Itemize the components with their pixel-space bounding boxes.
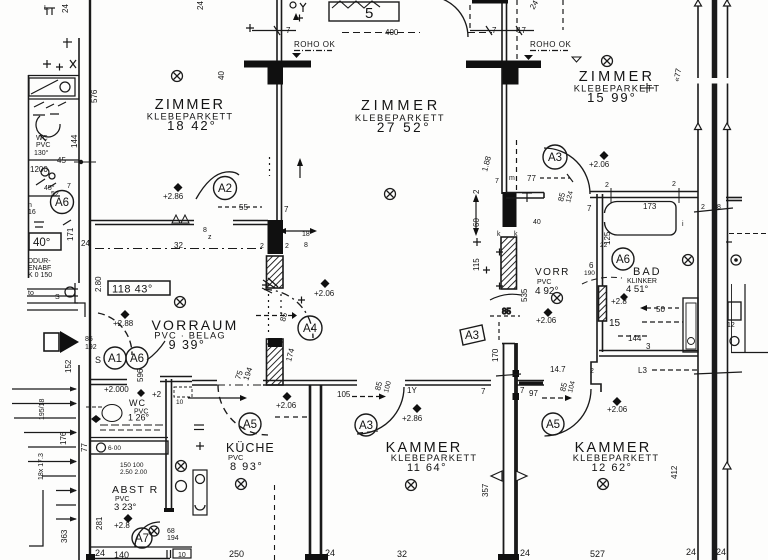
wire ABST bottom wall — [89, 546, 192, 548]
stair rail L — [29, 490, 43, 546]
svg-text:z: z — [208, 234, 212, 241]
wall pier hatched A4 — [267, 339, 284, 385]
wire wall2 lower — [503, 343, 505, 556]
label A4 — [298, 316, 322, 340]
svg-text:7: 7 — [520, 386, 525, 395]
ROOM LABELS — [112, 69, 662, 513]
tick line top wall2 — [470, 30, 534, 32]
wire horizontal wall y222 — [91, 220, 194, 222]
svg-text:1200: 1200 — [30, 165, 48, 174]
svg-text:A5: A5 — [243, 419, 257, 431]
wall pier black cap A4 — [268, 338, 282, 347]
door leaf triangles on wall — [172, 215, 189, 223]
svg-text:A2: A2 — [218, 183, 232, 195]
svg-text:S: S — [95, 355, 101, 365]
dashed vertical right of wall2 black pier — [516, 140, 518, 190]
R2-1 dashed box — [174, 387, 192, 397]
svg-text:24: 24 — [95, 548, 105, 558]
TOP BOX 5 — [329, 1, 399, 21]
node ticks on bad top wall — [610, 188, 612, 203]
svg-text:2: 2 — [605, 182, 609, 189]
door arc A1/A6 dashed — [98, 313, 132, 355]
svg-text:A7: A7 — [135, 533, 149, 545]
neighbor fixtures right of wall — [728, 302, 741, 320]
svg-text:576: 576 — [90, 89, 99, 103]
underline curve 4 92 — [490, 294, 521, 300]
svg-text:n: n — [28, 202, 32, 209]
svg-text:8: 8 — [203, 227, 207, 234]
svg-text:18x 17.3: 18x 17.3 — [38, 453, 45, 480]
symbol circled slash — [175, 297, 186, 308]
wire dashdot line 32 — [95, 248, 264, 250]
dim 85 dashes above — [490, 315, 520, 317]
node wall2 junction blobs — [513, 370, 520, 377]
misc dimension ticks — [44, 0, 742, 481]
svg-text:to: to — [28, 290, 34, 297]
svg-text:77: 77 — [80, 443, 89, 452]
box 5 — [329, 2, 399, 21]
shower WC fixture — [683, 298, 698, 352]
bowtie wall2 — [491, 471, 502, 481]
svg-text:3: 3 — [646, 342, 651, 351]
shelf line — [28, 159, 79, 161]
svg-text:8 93°: 8 93° — [230, 461, 263, 473]
DIMENSION TEXTS — [30, 26, 665, 559]
svg-text:2: 2 — [701, 204, 705, 211]
LEFT FIXTURE COLUMN — [28, 60, 79, 227]
door arc A7 abst — [135, 522, 160, 547]
wire neighbor line right — [744, 284, 746, 352]
wire dash arrow kammer1 — [352, 396, 380, 398]
svg-text:357: 357 — [481, 483, 490, 497]
svg-text:85: 85 — [85, 336, 93, 343]
svg-text:363: 363 — [60, 529, 69, 543]
gap covers on right wall lines — [693, 78, 734, 84]
svg-text:A4: A4 — [303, 323, 318, 335]
svg-text:400: 400 — [385, 28, 399, 37]
svg-text:A6: A6 — [130, 353, 144, 365]
svg-text:14.7: 14.7 — [550, 365, 566, 374]
wire kitchen dashed line — [274, 485, 276, 560]
svg-text:A3: A3 — [548, 152, 562, 164]
wire counter edge marks — [194, 424, 204, 426]
svg-text:4 51°: 4 51° — [626, 284, 648, 295]
wire dash arrow vorraum door — [256, 315, 292, 317]
scribbles below hatch — [262, 278, 278, 293]
svg-text:1 26°: 1 26° — [128, 413, 150, 423]
dim 55 dashes — [218, 206, 262, 208]
box 10 bottom — [173, 549, 191, 558]
svg-text:2: 2 — [472, 189, 481, 194]
bottom dimension row — [95, 547, 726, 560]
label A7 — [132, 528, 152, 548]
label A3 boxed — [460, 325, 485, 345]
wire dash arrow kitchen door — [188, 397, 240, 399]
wire dashdot door kitchen — [217, 384, 263, 386]
scribble marks — [34, 102, 66, 108]
svg-text:24: 24 — [196, 1, 205, 10]
svg-text:WC: WC — [129, 398, 146, 408]
svg-text:2: 2 — [590, 368, 594, 375]
svg-text:2.50 2.00: 2.50 2.00 — [120, 469, 147, 476]
wire long wall y380 seg3 — [192, 380, 217, 382]
svg-text:176: 176 — [59, 431, 68, 445]
label A1 — [104, 347, 126, 369]
counter box — [90, 437, 168, 439]
wire BAD top wall — [590, 191, 698, 193]
svg-text:11 64°: 11 64° — [407, 462, 447, 474]
svg-text:15: 15 — [609, 318, 621, 329]
svg-text:A3: A3 — [465, 330, 479, 342]
svg-text:6: 6 — [589, 261, 594, 270]
svg-text:250: 250 — [229, 549, 244, 559]
svg-text:12 62°: 12 62° — [592, 462, 633, 474]
vertical dim 60 arrows — [475, 198, 477, 232]
svg-text:24: 24 — [325, 548, 335, 558]
svg-text:ZIMMER: ZIMMER — [361, 98, 441, 114]
dashed vertical near wall2 top — [516, 0, 518, 60]
door arc entry right — [147, 341, 165, 360]
wire left inner wall line — [78, 38, 80, 283]
zigzag — [332, 1, 380, 8]
hinge T mark left of right wall — [640, 83, 654, 93]
KITCHEN / ABST fixtures — [86, 387, 207, 558]
plus marks near chimney right cluster — [473, 238, 481, 246]
svg-text:144: 144 — [70, 134, 79, 148]
svg-text:45: 45 — [57, 156, 66, 165]
top wall black bar at edge — [472, 0, 508, 4]
wire center wall2 upper — [501, 0, 503, 194]
svg-text:7: 7 — [495, 178, 499, 185]
svg-text:+2.06: +2.06 — [589, 160, 610, 169]
sink box right of wall — [193, 470, 207, 515]
toilet wc — [102, 405, 122, 422]
svg-text:m: m — [509, 175, 515, 182]
svg-text:VORR: VORR — [535, 267, 570, 278]
svg-text:+2.86: +2.86 — [163, 192, 184, 201]
svg-text:+2.8: +2.8 — [611, 297, 627, 306]
DOOR ARCS — [98, 0, 622, 547]
svg-text:8: 8 — [717, 204, 721, 211]
svg-text:15 99°: 15 99° — [587, 90, 637, 105]
label A2 — [214, 177, 237, 200]
door arc A2 — [196, 172, 239, 199]
wire long wall y380 seg4 — [263, 380, 357, 382]
wall pier hatched center-left — [267, 256, 284, 288]
svg-text:97: 97 — [529, 389, 538, 398]
boxed 40 — [29, 233, 61, 250]
STAIRS bottom-left — [12, 283, 85, 546]
svg-text:50: 50 — [656, 305, 665, 314]
wire horizontal wall y222 right part — [233, 220, 268, 222]
door arc A3 kammer1 dashed tail — [358, 431, 378, 433]
svg-text:+2.06: +2.06 — [536, 316, 557, 325]
svg-text:ROHO OK: ROHO OK — [294, 40, 335, 49]
svg-text:40: 40 — [533, 219, 541, 226]
svg-text:6·00: 6·00 — [108, 445, 121, 452]
left column small line — [28, 195, 60, 197]
svg-text:24: 24 — [61, 4, 70, 13]
label A6 entry — [126, 347, 148, 369]
node junction circle left wall — [79, 160, 83, 164]
svg-text:2: 2 — [285, 243, 289, 250]
svg-text:40°: 40° — [33, 237, 50, 249]
svg-text:173: 173 — [643, 202, 657, 211]
wall end tick — [164, 508, 174, 512]
plus marks cluster top-left — [43, 60, 51, 68]
svg-text:281: 281 — [95, 516, 104, 530]
hinge mark T vorr — [526, 192, 528, 202]
svg-text:18 42°: 18 42° — [167, 118, 217, 133]
svg-text:k: k — [514, 231, 518, 238]
svg-text:+2.000: +2.000 — [104, 385, 129, 394]
svg-text:190: 190 — [584, 270, 595, 277]
wire thick stub wall seg6 — [519, 382, 543, 385]
chimney T black right — [466, 61, 541, 69]
svg-text:10: 10 — [178, 552, 186, 559]
svg-text:PVC: PVC — [537, 279, 551, 286]
40 dashed arrow bad — [647, 307, 680, 309]
svg-text:170: 170 — [491, 348, 500, 362]
upper landing lines — [27, 283, 85, 317]
tick line top wall1 — [252, 30, 296, 32]
svg-text:115: 115 — [472, 258, 481, 271]
small vertical arrow z2 wall — [299, 162, 301, 178]
svg-text:8: 8 — [304, 242, 308, 249]
svg-text:5: 5 — [365, 5, 373, 22]
bathtub — [617, 202, 676, 236]
door arc A5 kammer2 — [545, 389, 592, 436]
svg-text:24: 24 — [686, 547, 696, 557]
DIAMOND level marks with +2 labels — [121, 151, 629, 523]
svg-text:ENABF: ENABF — [28, 265, 51, 272]
door arc top Z2 — [425, 0, 468, 37]
wire right triple wall thick — [712, 0, 718, 560]
crossing tick wall2 y375 — [496, 374, 521, 376]
wire left main wall line — [89, 0, 91, 560]
label A5 kitchen — [239, 413, 261, 435]
door arc A5 kitchen dashed — [218, 385, 268, 435]
marks at wall1 top — [290, 2, 296, 8]
svg-text:140: 140 — [114, 550, 129, 560]
svg-text:A6: A6 — [55, 197, 69, 209]
wall base blob — [305, 554, 328, 560]
wire long wall y380 seg5 — [405, 380, 491, 382]
svg-text:152: 152 — [64, 359, 73, 373]
svg-text:125: 125 — [603, 231, 612, 245]
svg-text:52: 52 — [51, 191, 59, 198]
svg-text:2: 2 — [260, 243, 264, 250]
svg-text:118 43°: 118 43° — [112, 284, 153, 296]
svg-text:7: 7 — [67, 183, 71, 190]
L3 dash — [652, 369, 698, 371]
wire left column outer line — [28, 75, 30, 278]
label A6 left — [51, 191, 74, 214]
wall pier black center-left — [268, 220, 284, 254]
svg-text:+2.06: +2.06 — [607, 405, 628, 414]
door arc A6 bad dashed — [582, 277, 622, 284]
wire BAD left wall lower step — [591, 352, 601, 392]
CIRCLED LABELS — [51, 145, 635, 548]
dim 77 dash right — [540, 177, 570, 179]
entrance arrow — [44, 331, 79, 353]
door arc A4 dashed — [264, 289, 313, 338]
svg-text:9 39°: 9 39° — [169, 338, 206, 352]
svg-text:2.80: 2.80 — [94, 276, 103, 292]
left column small texts — [28, 135, 97, 351]
wire dotted extension near wall1 — [269, 157, 271, 176]
wire right triple wall thin left — [697, 0, 699, 560]
entry triangle — [60, 331, 79, 353]
plus marks near chimney left — [246, 24, 254, 32]
wall end blob left — [86, 554, 95, 560]
fixture box with diagonal — [29, 78, 75, 96]
chimney T black left — [244, 61, 311, 68]
svg-text:171: 171 — [66, 227, 75, 241]
small circles — [41, 168, 49, 176]
dashes above counter — [100, 429, 160, 431]
svg-text:535: 535 — [520, 288, 529, 302]
wire long wall y380 seg6 — [516, 380, 544, 382]
door arc A3 kammer1 — [357, 387, 404, 434]
svg-text:77: 77 — [527, 174, 536, 183]
wire kammer wall lower — [309, 385, 312, 556]
svg-text:A3: A3 — [359, 420, 373, 432]
svg-text:16: 16 — [28, 209, 36, 216]
svg-text:27 52°: 27 52° — [377, 120, 431, 135]
svg-text:PVC: PVC — [36, 142, 50, 149]
door arc A3 top — [544, 148, 590, 194]
svg-text:1Y: 1Y — [407, 386, 417, 395]
wire abst bottom edge line — [95, 558, 170, 560]
svg-text:BAD: BAD — [633, 266, 662, 278]
BAD fixtures — [605, 188, 768, 353]
wire long wall y380 seg1 — [89, 379, 127, 381]
svg-text:L3: L3 — [638, 366, 647, 375]
svg-text:DDUR-: DDUR- — [28, 258, 51, 265]
SYMBOLS circled X — [149, 56, 741, 537]
wire dashed wall top Z2 — [342, 32, 420, 34]
wire right triple wall thin right — [727, 0, 729, 560]
svg-text:12: 12 — [727, 322, 735, 329]
label A6 bad — [612, 248, 634, 270]
svg-text:S: S — [55, 294, 60, 301]
svg-text:ROHO OK: ROHO OK — [530, 40, 571, 49]
svg-text:2: 2 — [672, 181, 676, 188]
stair treads — [12, 387, 77, 522]
svg-text:194: 194 — [167, 535, 179, 542]
small arrow at wall2 right side — [286, 230, 310, 232]
ROHO OK labels — [294, 40, 571, 49]
wire BAD left wall — [596, 194, 598, 352]
svg-text:7: 7 — [284, 205, 289, 214]
wire dashed vertical left of door — [469, 5, 471, 33]
wire WC right wall — [165, 379, 167, 512]
wash basin — [36, 116, 60, 137]
svg-text:24: 24 — [520, 548, 530, 558]
svg-text:A6: A6 — [616, 254, 630, 266]
svg-text:412: 412 — [670, 465, 679, 479]
bowtie right wall — [695, 0, 702, 6]
svg-text:150 100: 150 100 — [120, 462, 144, 469]
svg-text:195/18: 195/18 — [39, 398, 46, 420]
top left ticks — [46, 8, 48, 15]
svg-text:K 0 150: K 0 150 — [28, 272, 52, 279]
svg-text:18: 18 — [302, 231, 310, 238]
wall pier black center-right — [503, 192, 517, 227]
svg-text:7: 7 — [481, 387, 486, 396]
wire BAD bottom wall — [599, 350, 698, 352]
svg-text:ABST R: ABST R — [112, 484, 159, 496]
svg-text:+2.06: +2.06 — [276, 401, 297, 410]
wall base blob — [498, 554, 519, 560]
svg-text:144: 144 — [628, 334, 642, 343]
svg-text:105: 105 — [337, 390, 351, 399]
svg-text:+2: +2 — [152, 390, 162, 399]
svg-text:130°: 130° — [34, 149, 49, 157]
wire dash arrow kammer2 — [542, 397, 566, 399]
svg-text:k: k — [497, 231, 501, 238]
dashes bad interior — [642, 321, 683, 323]
svg-text:527: 527 — [590, 549, 605, 559]
svg-text:3 23°: 3 23° — [114, 502, 136, 513]
wire VORR top wall — [506, 192, 544, 194]
svg-text:+2.06: +2.06 — [314, 289, 335, 298]
wire dotted door jamb lines A4 — [268, 294, 270, 336]
svg-text:24: 24 — [81, 239, 90, 248]
wire dash line kitchen right — [275, 416, 309, 418]
crossing tick right wall y210 — [694, 208, 733, 212]
label A3 kammer1 — [355, 414, 377, 436]
svg-text:WC: WC — [36, 135, 48, 142]
svg-text:+2.86: +2.86 — [402, 414, 423, 423]
svg-text:68: 68 — [167, 528, 175, 535]
label A3 top — [543, 145, 567, 169]
svg-text:L.: L. — [44, 5, 50, 12]
svg-text:+2.8: +2.8 — [114, 521, 130, 530]
svg-text:192: 192 — [85, 344, 97, 351]
svg-text:85: 85 — [502, 307, 511, 316]
dashed vertical A3 door lower — [498, 322, 500, 341]
plus marks near A4 door — [262, 281, 270, 289]
wire long wall y380 seg2 — [160, 376, 192, 378]
svg-text:40: 40 — [217, 71, 226, 80]
svg-text:32: 32 — [397, 549, 407, 559]
svg-text:+2.88: +2.88 — [113, 319, 134, 328]
node wall joint mark — [74, 161, 96, 163]
door jamb hatched BAD — [599, 286, 607, 321]
svg-text:A5: A5 — [546, 419, 560, 431]
svg-text:A1: A1 — [108, 353, 122, 365]
svg-text:24: 24 — [716, 547, 726, 557]
wire center wall Z1/Z2 upper — [276, 0, 278, 222]
svg-text:7: 7 — [587, 204, 592, 213]
wall pier hatched center-right — [501, 237, 517, 289]
boxed 118 43 — [95, 281, 186, 365]
wire wall stub right of triple — [726, 197, 742, 199]
entry box — [44, 333, 59, 351]
crossing tick right wall y372 — [694, 372, 742, 374]
label A5 kammer2 — [542, 413, 564, 435]
svg-text:10: 10 — [176, 399, 184, 406]
svg-text:596: 596 — [136, 368, 145, 382]
svg-text:32: 32 — [174, 241, 183, 250]
